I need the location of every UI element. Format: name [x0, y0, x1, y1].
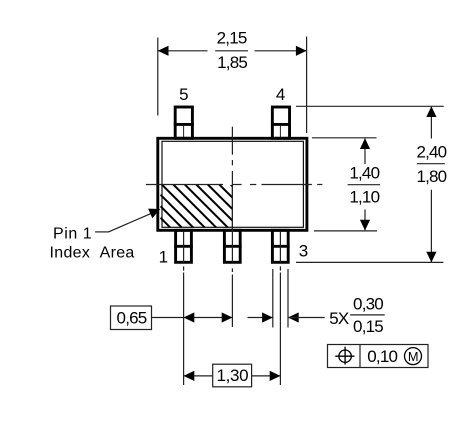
dimension 2,40/1,80: top arrow — [426, 106, 436, 117]
pin 1 index area hatching — [161, 185, 237, 228]
svg-text:Pin 1: Pin 1 — [53, 225, 92, 242]
dimension 2,40/1,80: bottom arrow — [426, 252, 436, 263]
dimension 0,65: left arrow — [184, 312, 195, 322]
horizontal body centerline — [146, 184, 323, 186]
pin 1 leader line diagonal segment — [109, 213, 152, 232]
dimension 5X: fraction bar — [350, 314, 385, 316]
dimension 1,40/1,10: upper dimension line — [364, 139, 366, 165]
svg-text:M: M — [408, 349, 419, 364]
svg-text:0,65: 0,65 — [117, 309, 147, 328]
dimension 0,65: dimension line — [184, 317, 233, 319]
dimension 1,40/1,10: top arrow — [360, 138, 370, 149]
dimension 1,40/1,10: top extension line — [312, 137, 377, 139]
dimension 1,30: left arrow — [184, 371, 195, 381]
pin 3 right edge extension line — [287, 269, 289, 328]
svg-text:Index Area: Index Area — [50, 245, 135, 262]
svg-text:2,15: 2,15 — [217, 28, 247, 47]
svg-text:0,10: 0,10 — [367, 347, 397, 366]
feature control frame divider — [359, 345, 361, 368]
hatch right boundary line — [231, 185, 233, 228]
dimension 1,30: right arrow — [270, 371, 281, 381]
svg-text:1,85: 1,85 — [217, 53, 247, 72]
svg-text:0,15: 0,15 — [353, 317, 383, 336]
svg-text:1,40: 1,40 — [349, 164, 379, 183]
dimension 5X 0,30/0,15: left arrow — [262, 312, 273, 322]
dimension 1,30: dimension line left segment — [184, 375, 213, 377]
feature control frame box — [328, 345, 429, 368]
dimension 5X 0,30/0,15: right leader line — [288, 317, 325, 319]
svg-text:1,10: 1,10 — [349, 188, 379, 207]
dimension 2,15/1,85: fraction bar — [215, 50, 248, 52]
modifier symbol circled M — [405, 348, 422, 365]
lead pin 3 (bottom right) — [271, 230, 290, 262]
package body inner outline — [162, 141, 303, 227]
lead pin 2 (bottom center) — [223, 230, 242, 262]
svg-text:3: 3 — [299, 242, 308, 261]
dimension 1,40/1,10: lower dimension line — [364, 210, 366, 231]
lead pin 4 (top right) — [271, 107, 291, 138]
dimension 5X 0,30/0,15: right arrow — [288, 312, 299, 322]
dimension 2,15/1,85: left extension line — [157, 38, 159, 116]
svg-text:1,30: 1,30 — [216, 366, 248, 385]
dimension 1,40/1,10: bottom extension line — [314, 230, 377, 232]
lead pin 5 (top left) — [174, 107, 194, 138]
dimension 0,65: boxed text frame — [111, 306, 152, 330]
pin 5 centerline — [183, 126, 185, 138]
dimension 1,30: boxed text frame — [213, 364, 252, 387]
dimension 0,65: leader line — [152, 317, 184, 319]
dimension 2,15/1,85: dimension line left segment — [158, 50, 208, 52]
svg-text:1: 1 — [159, 248, 168, 267]
dimension 0,65: right arrow — [222, 312, 233, 322]
dimension 1,30: dimension line right segment — [252, 375, 281, 377]
lead pin 1 (bottom left) — [174, 230, 193, 262]
dimension 2,40/1,80: lower dimension line — [430, 190, 432, 262]
dimension 2,40/1,80: top extension line — [296, 105, 444, 107]
svg-text:4: 4 — [276, 85, 285, 104]
pin 3 left edge extension line — [272, 269, 274, 328]
dimension 1,40/1,10: fraction bar — [348, 184, 381, 186]
pin 1 leader arrowhead — [148, 209, 160, 219]
position tolerance symbol — [335, 347, 354, 365]
svg-text:5: 5 — [179, 85, 188, 104]
dimension 2,15/1,85: dimension line right segment — [255, 50, 307, 52]
pin 1 centerline extension — [183, 232, 185, 385]
dimension 2,15/1,85: left arrow — [158, 46, 169, 56]
pin 1 leader line horizontal segment — [95, 231, 109, 233]
dimension 2,40/1,80: upper dimension line — [430, 107, 432, 139]
vertical centerline through body and pin 2 — [231, 127, 233, 327]
dimension 2,40/1,80: bottom extension line — [296, 261, 443, 263]
dimension 2,15/1,85: right arrow — [296, 46, 307, 56]
svg-text:1,80: 1,80 — [416, 167, 446, 186]
svg-text:5X: 5X — [329, 309, 349, 328]
package body outer outline — [158, 138, 307, 230]
svg-text:2,40: 2,40 — [416, 142, 446, 161]
dimension 2,15/1,85: right extension line — [306, 37, 308, 134]
dimension 5X 0,30/0,15: left leader line — [248, 317, 273, 319]
svg-text:0,30: 0,30 — [353, 294, 383, 313]
pin 3 centerline extension — [279, 232, 281, 385]
dimension 2,40/1,80: fraction bar — [417, 163, 445, 165]
pin 4 centerline — [279, 126, 281, 138]
dimension 1,40/1,10: bottom arrow — [360, 220, 370, 231]
